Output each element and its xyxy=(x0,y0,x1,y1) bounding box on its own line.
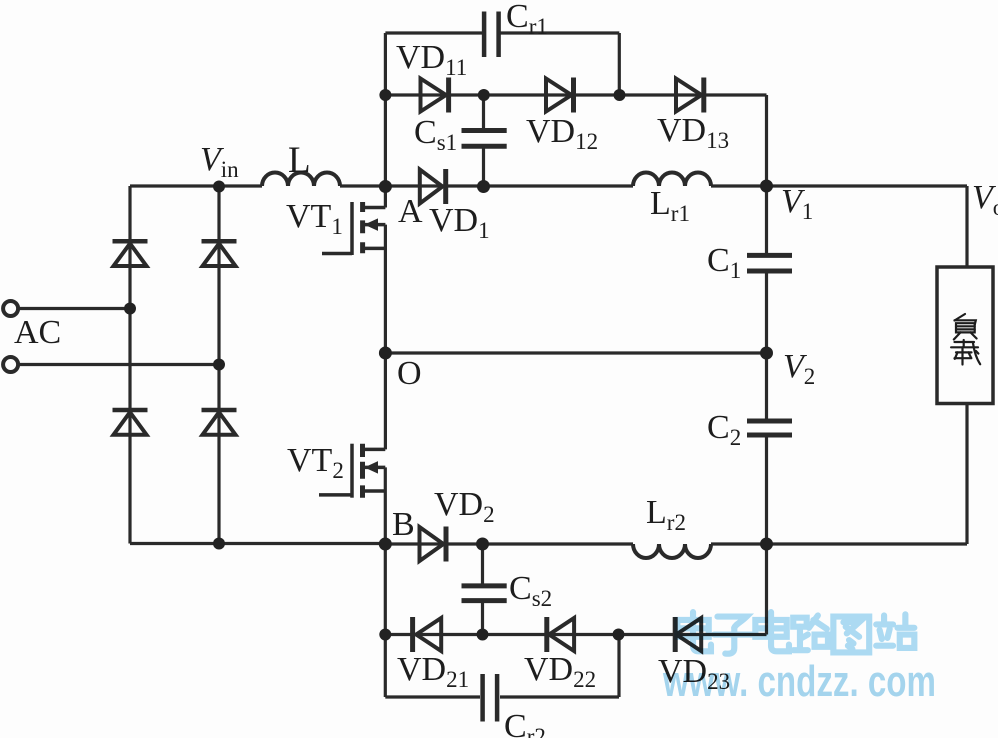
load text 负载 hand drawn xyxy=(951,314,980,365)
svg-text:Cr1: Cr1 xyxy=(506,0,548,39)
svg-text:VD21: VD21 xyxy=(397,651,469,692)
watermark hanzi 路 xyxy=(793,615,828,650)
node bottom rail right column xyxy=(213,538,225,550)
svg-text:Vin: Vin xyxy=(200,141,239,182)
wire top rail left segment xyxy=(130,184,262,187)
svg-text:C1: C1 xyxy=(707,242,741,283)
wire Cr2 right riser xyxy=(617,635,620,698)
watermark hanzi 电 xyxy=(677,612,711,651)
node Cs2 bottom junction xyxy=(477,629,489,641)
wire left bridge column xyxy=(128,186,131,544)
svg-text:B: B xyxy=(392,506,415,543)
wire right column VD13 corner down to V1 xyxy=(765,95,768,186)
wire right column V1 to C1 xyxy=(765,186,768,253)
wire right column C1 to V2 xyxy=(765,273,768,353)
diode VD22 xyxy=(549,618,574,651)
node output return junction xyxy=(760,538,773,551)
hanzi 负 xyxy=(954,314,977,340)
watermark hanzi 子 xyxy=(714,617,752,654)
diode VD12 xyxy=(546,79,572,112)
svg-text:VD1: VD1 xyxy=(429,202,490,243)
wire Cr1 right drop xyxy=(618,33,621,95)
diode VD2 xyxy=(420,527,444,561)
svg-text:Vo: Vo xyxy=(972,179,998,220)
node Cs1 top junction xyxy=(478,89,490,101)
wire Cs1 column xyxy=(482,95,485,187)
wire center column VT2 source to Cr2 corner xyxy=(384,467,387,697)
capacitor Cr2 xyxy=(483,674,498,722)
inductor Lr2 xyxy=(633,544,711,558)
watermark hanzi 图 xyxy=(833,617,869,653)
wire top diode row xyxy=(385,93,766,96)
node VD21 row left xyxy=(379,629,391,641)
node O xyxy=(379,347,392,360)
inductor Lr1 xyxy=(633,173,711,187)
svg-text:VD11: VD11 xyxy=(396,39,467,80)
wire center column VT1 source to VT2 drain through node O xyxy=(384,225,387,450)
svg-text:VT1: VT1 xyxy=(286,198,343,239)
node V2 xyxy=(760,347,773,360)
wire Cs2 column xyxy=(481,544,484,635)
node Vin junction xyxy=(213,181,225,193)
capacitor C1 xyxy=(747,255,792,271)
MOSFET VT2 xyxy=(319,444,385,498)
load box xyxy=(937,267,993,404)
node Cs1 bottom junction xyxy=(477,180,490,193)
svg-text:VD12: VD12 xyxy=(526,113,598,154)
MOSFET VT1 xyxy=(322,202,385,255)
node Cs2 top junction xyxy=(476,538,489,551)
node V1 xyxy=(760,180,773,193)
wire Cr1 row left xyxy=(385,31,482,34)
svg-text:A: A xyxy=(398,193,423,230)
wire right bridge column xyxy=(217,186,220,544)
bridge diode lower-right xyxy=(202,408,237,413)
svg-text:Cr2: Cr2 xyxy=(504,708,546,738)
wire Cr2 row left xyxy=(385,695,480,698)
svg-text:Cs2: Cs2 xyxy=(509,570,552,611)
svg-text:L: L xyxy=(288,140,311,181)
wire top rail mid segment (A node region) xyxy=(340,184,633,187)
wire right column bottom node down to VD23 row corner xyxy=(765,544,768,635)
svg-text:www. cndzz. com: www. cndzz. com xyxy=(662,657,936,706)
svg-text:V1: V1 xyxy=(781,183,813,224)
wire VD21 row xyxy=(385,633,766,636)
node Cr1 right junction xyxy=(614,89,626,101)
svg-text:V2: V2 xyxy=(783,348,815,389)
capacitor Cs1 xyxy=(462,131,507,147)
wire Cr1 row right xyxy=(501,31,620,34)
svg-text:Lr2: Lr2 xyxy=(646,494,686,535)
watermark hanzi 站 xyxy=(876,614,914,648)
capacitor Cs2 xyxy=(462,586,507,601)
node B xyxy=(379,538,392,551)
diode VD23 xyxy=(676,618,701,651)
wire B row VD2 segment xyxy=(385,542,633,545)
bridge diode lower-left xyxy=(113,408,148,413)
wire AC line 2 xyxy=(18,363,219,366)
wire O row xyxy=(385,351,766,354)
wire center column top (Cr1 corner to VT1 drain) xyxy=(384,33,387,208)
capacitor C2 xyxy=(747,421,792,435)
diode VD11 xyxy=(421,79,447,112)
svg-text:Lr1: Lr1 xyxy=(650,185,690,226)
svg-text:VD13: VD13 xyxy=(657,112,729,153)
hanzi 载 xyxy=(951,340,980,365)
capacitor Cr1 xyxy=(484,12,499,58)
wire right column C2 to bottom node xyxy=(765,437,768,544)
svg-text:O: O xyxy=(397,355,422,392)
diode VD13 xyxy=(676,79,702,112)
node AC2 to right column xyxy=(213,359,225,371)
watermark hanzi 电 (second) xyxy=(755,612,789,651)
svg-text:AC: AC xyxy=(14,314,61,351)
AC terminal circle top xyxy=(3,301,18,316)
inductor L xyxy=(262,173,340,187)
node top of center column at VD11 row xyxy=(379,89,391,101)
svg-text:C2: C2 xyxy=(707,409,741,450)
bridge diode upper-right xyxy=(202,239,237,244)
svg-text:VD22: VD22 xyxy=(524,651,596,692)
node Cr2 right junction xyxy=(613,629,625,641)
node AC1 to left column xyxy=(124,303,136,315)
bridge diode upper-left xyxy=(113,239,148,244)
wire B row right segment to load return xyxy=(711,542,967,545)
node A xyxy=(379,180,392,193)
wire top rail right segment to output corner xyxy=(711,184,967,187)
svg-text:Cs1: Cs1 xyxy=(414,114,457,155)
wire bottom rail xyxy=(130,542,385,545)
wire load bottom lead xyxy=(965,404,968,545)
svg-text:VD2: VD2 xyxy=(434,486,495,527)
svg-text:VT2: VT2 xyxy=(287,442,344,483)
wire load top lead xyxy=(965,186,968,267)
diode VD1 xyxy=(420,170,443,204)
AC terminal circle bottom xyxy=(3,357,18,372)
watermark site name 电子电路图站 xyxy=(677,612,914,654)
wire Cr2 row right xyxy=(500,695,619,698)
wire right column V2 to C2 xyxy=(765,353,768,419)
wire AC line 1 xyxy=(18,307,130,310)
diode VD21 xyxy=(416,618,441,651)
